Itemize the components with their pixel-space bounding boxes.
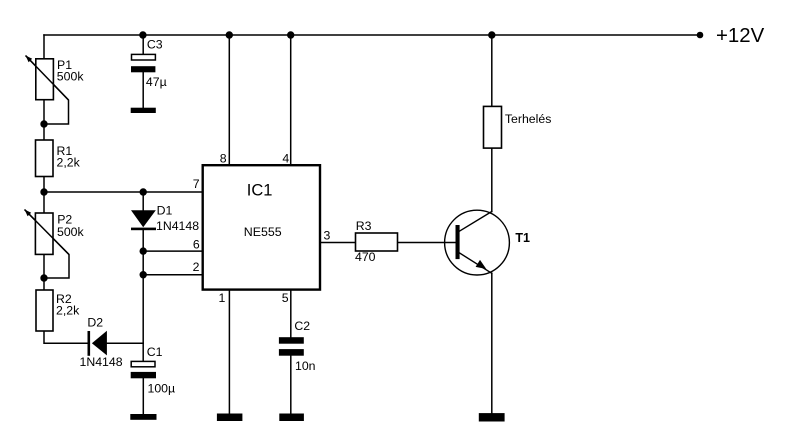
svg-text:6: 6 — [193, 237, 200, 251]
svg-text:IC1: IC1 — [247, 181, 273, 199]
svg-text:1N4148: 1N4148 — [80, 355, 123, 369]
svg-text:5: 5 — [282, 291, 289, 305]
svg-text:C2: C2 — [294, 319, 310, 333]
svg-text:500k: 500k — [57, 70, 85, 84]
svg-text:1: 1 — [218, 291, 225, 305]
svg-text:T1: T1 — [515, 231, 530, 245]
svg-text:10n: 10n — [295, 359, 316, 373]
svg-text:Terhelés: Terhelés — [505, 112, 551, 126]
svg-text:3: 3 — [324, 229, 331, 243]
svg-text:D2: D2 — [87, 315, 103, 329]
svg-text:4: 4 — [282, 151, 289, 165]
svg-text:7: 7 — [193, 177, 200, 191]
svg-text:+12V: +12V — [716, 25, 765, 47]
svg-text:8: 8 — [220, 151, 227, 165]
svg-text:C3: C3 — [147, 37, 163, 51]
svg-text:2,2k: 2,2k — [56, 303, 80, 317]
svg-text:R3: R3 — [356, 219, 372, 233]
svg-text:47µ: 47µ — [146, 75, 167, 89]
svg-text:470: 470 — [355, 250, 376, 264]
svg-text:2,2k: 2,2k — [57, 155, 81, 169]
svg-text:C1: C1 — [147, 345, 163, 359]
svg-text:NE555: NE555 — [244, 225, 282, 239]
svg-text:D1: D1 — [157, 204, 173, 218]
svg-text:500k: 500k — [57, 225, 85, 239]
svg-text:100µ: 100µ — [148, 382, 176, 396]
svg-text:1N4148: 1N4148 — [156, 219, 199, 233]
svg-text:2: 2 — [193, 260, 200, 274]
